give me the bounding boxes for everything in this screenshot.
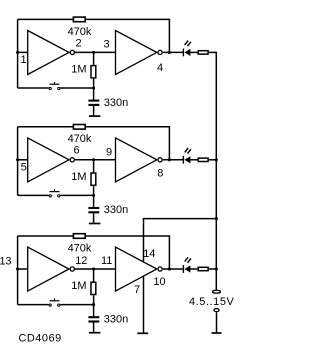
resistor 470k (stage 2) (73, 125, 85, 130)
junction: output node pin 10 (stage 3) (168, 267, 171, 270)
svg-text:6: 6 (74, 145, 80, 157)
wire: LED to series resistor (stage 2) (190, 159, 197, 161)
pushbutton (stage 3) (49, 304, 51, 306)
LED (stage 1) (182, 49, 184, 57)
resistor 1M (stage 2) (91, 173, 96, 185)
svg-text:13: 13 (0, 256, 12, 268)
wire: node X to capacitor (stage 1) (93, 88, 95, 100)
svg-text:8: 8 (157, 167, 163, 179)
wire: feedback from output pin 8 through 470k to input pin 5 (stage 2) (18, 126, 73, 128)
svg-text:9: 9 (106, 146, 112, 158)
junction: input node stage 3 (16, 267, 19, 270)
svg-text:4.5..15V: 4.5..15V (189, 296, 234, 308)
LED light arrows (stage 2) (185, 148, 188, 152)
junction: supply rail tap (stage 2) (215, 158, 218, 161)
wire: ground terminal to ground (216, 312, 218, 332)
wire: input to inverter A stage 2 (18, 159, 28, 161)
junction: node X (stage 3) (92, 303, 95, 306)
junction: RC node at pin 2 (stage 1) (92, 51, 95, 54)
wire: node to 1M resistor (stage 3) (93, 269, 95, 282)
wire: VSS pin 7 to ground (143, 276, 145, 332)
supply terminal (+) (213, 290, 221, 293)
svg-text:330n: 330n (104, 97, 128, 109)
resistor LED series (stage 2) (198, 158, 208, 161)
wire: series resistor to supply rail (stage 3) (209, 268, 216, 270)
wire: capacitor to ground (stage 2) (93, 213, 95, 223)
wire: node to 1M resistor (stage 1) (93, 52, 95, 65)
svg-text:7: 7 (134, 284, 140, 296)
wire: node to 1M resistor (stage 2) (93, 160, 95, 173)
wire: pin 2 to pin 3 (stage 1) (75, 51, 116, 53)
wire: left input rail stage 2 (17, 127, 19, 196)
svg-text:330n: 330n (104, 204, 128, 216)
pushbutton (stage 1) (49, 87, 51, 89)
wire: pushbutton to node X (stage 1) (60, 87, 93, 89)
svg-text:1M: 1M (71, 171, 86, 183)
junction: output node pin 8 (stage 2) (168, 158, 171, 161)
wire: pushbutton to node X (stage 3) (60, 304, 93, 306)
wire: VDD pin 14 feed from supply rail (144, 219, 217, 262)
wire: capacitor to ground (stage 1) (93, 106, 95, 116)
wire: 1M to node X (stage 1) (93, 79, 95, 88)
junction: node X (stage 1) (92, 86, 95, 89)
svg-text:1M: 1M (71, 64, 86, 76)
ground: supply ground (212, 332, 222, 334)
svg-text:12: 12 (75, 255, 87, 267)
inverter U1F input pin 11 output pin 10 (116, 247, 157, 291)
svg-text:4: 4 (157, 62, 163, 74)
svg-text:CD4069: CD4069 (18, 333, 61, 345)
wire: pin 6 to pin 9 (stage 2) (75, 159, 116, 161)
wire: left input rail stage 1 (17, 19, 19, 88)
svg-text:470k: 470k (68, 26, 92, 38)
junction: input node stage 1 (16, 51, 19, 54)
svg-text:10: 10 (153, 276, 165, 288)
wire: pin 12 to pin 11 (stage 3) (75, 268, 116, 270)
wire: positive supply rail (215, 52, 217, 290)
resistor LED series (stage 3) (198, 267, 208, 270)
junction: output node pin 4 (stage 1) (168, 51, 171, 54)
svg-text:1: 1 (21, 54, 27, 66)
ground: capacitor ground (stage 3) (89, 332, 101, 334)
svg-text:1M: 1M (71, 280, 86, 292)
pushbutton (stage 2) (49, 195, 51, 197)
svg-text:470k: 470k (68, 242, 92, 254)
wire: left input rail stage 3 (17, 236, 19, 305)
LED light arrows (stage 3) (185, 257, 188, 261)
capacitor 330n (stage 2) (88, 207, 99, 209)
junction: node X (stage 2) (92, 194, 95, 197)
wire: feedback from output pin 10 through 470k to input pin 13 (stage 3) (18, 235, 73, 237)
wire: pushbutton to node X (stage 2) (60, 194, 93, 196)
svg-text:470k: 470k (68, 133, 92, 145)
inverter U1C input pin 13 output pin 12 (28, 247, 69, 291)
capacitor 330n (stage 1) (88, 100, 99, 102)
wire: series resistor to supply rail (stage 2) (209, 159, 216, 161)
inverter U1B input pin 5 output pin 6 (28, 138, 69, 182)
wire: 1M to node X (stage 2) (93, 186, 95, 195)
wire: node X to capacitor (stage 2) (93, 195, 95, 207)
wire: 1M to node X (stage 3) (93, 295, 95, 304)
wire: rail to pushbutton (stage 1) (18, 87, 49, 89)
junction: supply rail tap (stage 3) (215, 267, 218, 270)
junction: input node stage 2 (16, 158, 19, 161)
junction: RC node at pin 6 (stage 2) (92, 158, 95, 161)
inverter U1D input pin 3 output pin 4 (116, 31, 157, 75)
LED (stage 2) (182, 156, 184, 164)
wire: pin 4 output to LED (stage 1) (163, 51, 184, 53)
svg-text:14: 14 (143, 248, 155, 260)
capacitor 330n (stage 3) (88, 316, 99, 318)
wire: LED to series resistor (stage 3) (190, 268, 197, 270)
resistor LED series (stage 1) (198, 51, 208, 54)
resistor 1M (stage 1) (91, 66, 96, 78)
wire: node X to capacitor (stage 3) (93, 305, 95, 317)
svg-text:3: 3 (104, 39, 110, 51)
wire: pin 10 output to LED (stage 3) (163, 268, 184, 270)
resistor 470k (stage 1) (73, 17, 85, 22)
junction: RC node at pin 12 (stage 3) (92, 267, 95, 270)
ground terminal (214, 309, 219, 312)
inverter U1A input pin 1 output pin 2 (28, 31, 69, 75)
svg-text:330n: 330n (104, 313, 128, 325)
wire: capacitor to ground (stage 3) (93, 323, 95, 333)
wire: rail to pushbutton (stage 2) (18, 194, 49, 196)
ground: capacitor ground (stage 1) (89, 115, 101, 117)
resistor 470k (stage 3) (73, 234, 85, 239)
wire: feedback from output pin 4 through 470k to input pin 1 (stage 1) (18, 18, 73, 20)
svg-text:11: 11 (101, 255, 112, 267)
ground: capacitor ground (stage 2) (89, 223, 101, 225)
svg-text:2: 2 (76, 37, 82, 49)
resistor 1M (stage 3) (91, 282, 96, 294)
LED (stage 3) (182, 265, 184, 273)
wire: LED to series resistor (stage 1) (190, 51, 197, 53)
wire: pin 8 output to LED (stage 2) (163, 159, 184, 161)
wire: input to inverter A stage 3 (18, 268, 28, 270)
inverter U1E input pin 9 output pin 8 (116, 138, 157, 182)
ground: pin 7 ground (137, 332, 148, 334)
junction: supply rail to pin 14 (215, 217, 218, 220)
wire: rail to pushbutton (stage 3) (18, 304, 49, 306)
LED light arrows (stage 1) (185, 41, 188, 45)
wire: input to inverter A stage 1 (18, 51, 28, 53)
svg-text:5: 5 (21, 162, 27, 174)
wire: series resistor to supply rail (stage 1) (209, 51, 216, 53)
